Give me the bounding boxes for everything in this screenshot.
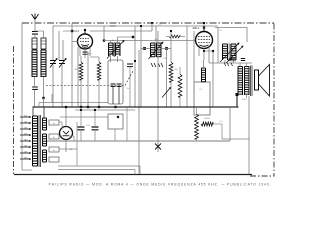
wire V1 left — [72, 41, 78, 43]
variable capacitor C3 tuning — [50, 61, 56, 64]
wire x139 — [138, 50, 140, 174]
resistor R2 — [97, 62, 101, 80]
wire x135 — [134, 26, 136, 107]
IF transformer T2 winding b — [231, 44, 236, 60]
wire L1 bottom — [34, 77, 36, 86]
coil L2 former — [41, 38, 46, 49]
wave marks — [151, 63, 163, 67]
wire V3 bottom — [65, 140, 67, 153]
svg-text:10000: 10000 — [204, 118, 211, 120]
wire box1-V3 — [59, 121, 62, 123]
transformer T4 sec 1 — [43, 118, 47, 130]
terminal box 1 — [49, 120, 59, 125]
wire y117 — [60, 116, 108, 118]
wire gang rail 3 — [62, 40, 64, 60]
svg-text:2M: 2M — [174, 69, 177, 71]
mains tap 220 — [20, 146, 31, 147]
wire x187 — [186, 26, 188, 107]
wire T1a top — [110, 41, 112, 44]
shield box K1 — [108, 60, 123, 104]
capacitor C5 cathode — [83, 52, 88, 54]
output transformer T3 winding a — [238, 67, 243, 96]
node box bottom — [114, 106, 116, 108]
wire T1b bottom — [117, 56, 119, 62]
wire mid vertical x88 — [87, 52, 89, 107]
bus B+ main — [33, 106, 239, 108]
node OT bottom — [236, 93, 239, 96]
capacitor C2 — [32, 87, 38, 89]
mains tap 160 — [20, 140, 31, 141]
wire y110 — [75, 109, 135, 111]
wire y166 — [58, 165, 140, 167]
wire antenna lead — [34, 19, 36, 31]
output transformer T3 core — [251, 66, 253, 97]
transformer T4 sec 3 — [43, 150, 47, 162]
wire OT-bus — [236, 95, 238, 108]
node bus a — [80, 106, 82, 108]
wire osc top — [43, 31, 45, 38]
wire bus to primary — [32, 107, 34, 116]
speaker LS — [255, 70, 259, 90]
transformer T4 primary — [33, 116, 38, 166]
wire y152 — [46, 151, 66, 153]
wire x158 — [157, 31, 159, 107]
wire C1 to coil — [34, 34, 36, 38]
node IFT1 left — [103, 39, 105, 41]
choke L4 — [201, 122, 213, 126]
IF transformer T2 core — [229, 43, 230, 61]
IF transformer T2a winding b — [157, 43, 162, 57]
wire x249 to bottom — [248, 139, 250, 174]
potentiometer P1 — [166, 49, 168, 108]
wire L2 link — [43, 98, 45, 107]
wire x127 — [126, 107, 128, 141]
terminal box 3 — [49, 147, 59, 152]
wire gang rail 1 — [52, 26, 54, 60]
svg-text:EBL1: EBL1 — [193, 26, 200, 30]
resistor R5 — [178, 74, 182, 97]
node T2a left — [143, 47, 146, 50]
resistor R1 — [79, 62, 83, 80]
node gang top — [71, 30, 73, 32]
wire y102 — [39, 102, 108, 104]
shield box K3 — [215, 28, 247, 43]
node R4 — [170, 30, 172, 32]
wire y139 — [222, 138, 249, 140]
wire x141 down — [140, 49, 142, 108]
mains tap 125 — [20, 128, 31, 129]
wire x141 — [140, 26, 142, 50]
wire T2a top — [155, 26, 157, 43]
capacitor C10 electrolytic — [80, 110, 82, 126]
chassis border right (dash-dot) — [273, 24, 275, 177]
wire V2 grid cap — [203, 23, 205, 28]
wire y40 bus — [104, 40, 196, 42]
wire L2 bottom — [43, 77, 45, 98]
wire C2 down — [34, 90, 36, 108]
wire R2 top — [90, 56, 99, 58]
IF transformer T1 core — [113, 42, 116, 57]
node V2 junction — [203, 50, 205, 52]
IF transformer T1 arrow — [107, 41, 124, 59]
resistor R3 small — [169, 35, 180, 38]
wire bus y31 — [90, 30, 152, 32]
coil L3 — [202, 68, 206, 82]
capacitor C6 — [111, 84, 116, 86]
terminal box 2 — [49, 134, 59, 139]
svg-text:7000: 7000 — [242, 99, 248, 101]
resistor R7 — [195, 114, 199, 139]
mains tap 145 — [20, 134, 31, 135]
capacitor C11 electrolytic — [94, 110, 96, 126]
wire x194 — [193, 31, 195, 82]
tube V1 converter — [78, 34, 93, 49]
mains tap 260 — [20, 158, 31, 159]
variable capacitor C8 osc section — [127, 64, 133, 67]
wire T3 top — [239, 63, 241, 67]
wire box2 link — [59, 135, 74, 137]
gang link dashed — [46, 71, 133, 86]
coil L1 winding — [32, 50, 37, 77]
IF transformer T2 winding a — [223, 44, 228, 60]
chassis border top (dash-dot) — [22, 22, 274, 24]
wire x218 — [217, 27, 219, 63]
wire x230 drop — [229, 107, 231, 141]
node T2a right — [165, 47, 168, 50]
wire T3 tap — [246, 95, 248, 98]
wave marks 2 — [224, 63, 233, 67]
wire V2 pin1 — [198, 48, 200, 56]
wire x158 low — [157, 107, 159, 152]
wire x213 — [212, 51, 214, 107]
svg-text:5000: 5000 — [110, 25, 116, 28]
capacitor C9 tone — [241, 59, 245, 61]
IF transformer T2a arrow — [149, 42, 164, 59]
coil L2 winding — [41, 50, 46, 77]
node top x152 — [151, 22, 153, 24]
wire T3a bottom — [248, 96, 250, 139]
wire x77 heater — [76, 122, 78, 166]
wire left rail bottom — [22, 169, 32, 171]
node x141 — [140, 25, 142, 27]
IF transformer T2a winding a — [151, 43, 156, 57]
wire x52 stub — [51, 94, 53, 103]
wire V3 top — [65, 107, 67, 127]
rectifier tube V3 — [60, 127, 73, 140]
coil L1 former — [32, 38, 37, 49]
mains tap 120 — [20, 122, 31, 123]
bus lower — [46, 140, 230, 142]
IF transformer T1 winding b — [116, 43, 121, 56]
wire C3 down — [52, 65, 54, 108]
wire bus to secondary — [43, 107, 45, 118]
wire bus y26 — [53, 25, 218, 27]
wire y169 — [58, 169, 135, 171]
node C10 — [80, 109, 82, 111]
wire L4 out — [213, 123, 222, 125]
node K4 — [117, 116, 119, 118]
chassis border left (dash-dot) — [13, 46, 15, 174]
bottom chassis line — [14, 174, 252, 176]
wire T2a down — [224, 60, 226, 63]
block K4 — [108, 114, 123, 129]
antenna A — [32, 14, 39, 20]
block K2 — [194, 82, 210, 115]
wire V1 pin2 — [84, 49, 86, 58]
resistor R4 — [169, 62, 173, 82]
ground X — [155, 144, 161, 150]
transformer T4 sec 2 — [43, 134, 47, 146]
capacitor C7 — [117, 84, 122, 86]
variable capacitor C4 tuning — [59, 61, 65, 64]
wire V1 pin1 — [79, 48, 81, 56]
wire y67 bus — [209, 62, 252, 64]
wire T1b top — [117, 37, 119, 43]
transformer T4 core — [39, 115, 41, 167]
wire left vertical rail — [21, 23, 23, 170]
IF transformer T1 winding a — [109, 43, 114, 56]
wire heater run — [59, 148, 77, 150]
capacitor C1 antenna series — [32, 32, 38, 35]
wire V2 pin2 — [203, 49, 205, 61]
wire V2 pin3 — [208, 47, 210, 64]
svg-text:ECH4: ECH4 — [71, 29, 79, 33]
wire T1a bottom — [110, 56, 112, 62]
tube V2 IF-det — [196, 32, 213, 49]
node T1 right — [132, 36, 134, 38]
wire right of gang — [71, 23, 73, 107]
wire T2b down — [233, 60, 235, 63]
output transformer T3 winding b — [245, 67, 250, 96]
svg-text:3M: 3M — [74, 69, 77, 71]
wire gang rail 2 — [58, 31, 60, 60]
svg-text:PHILIPS RADIO — MOD. A ROMA: PHILIPS RADIO — MOD. A ROMA 4 — ONDE MED… — [49, 183, 272, 187]
wire V1 pin3 — [89, 48, 91, 57]
resistor R6 small — [228, 58, 236, 61]
mains tap 245 — [20, 152, 31, 153]
IF transformer T2 arrows — [220, 43, 239, 62]
wire C4 down — [61, 65, 63, 108]
mains tap 110 — [20, 116, 31, 117]
terminal box 4 — [49, 157, 59, 162]
